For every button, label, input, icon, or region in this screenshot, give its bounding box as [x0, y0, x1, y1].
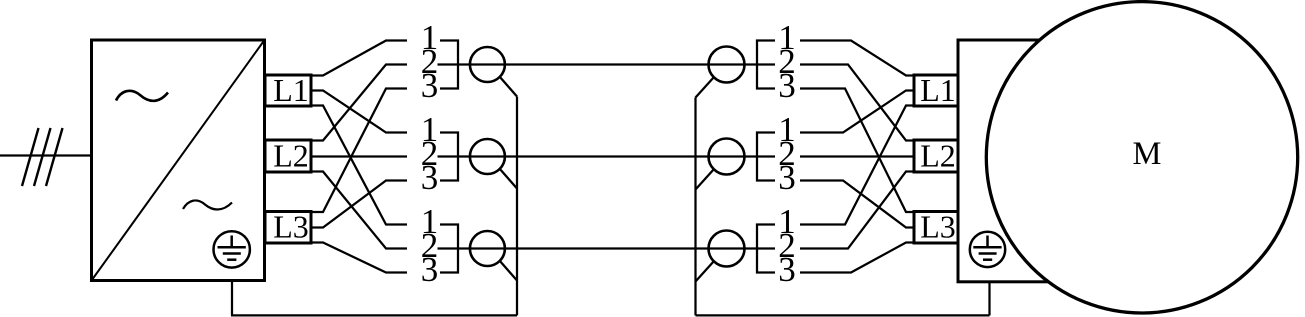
shield drain diagonal cable1 left: [500, 77, 517, 97]
svg-text:3: 3: [778, 66, 796, 105]
ground drop motor box: [988, 282, 990, 315]
terminal L3 motor: [914, 209, 958, 245]
connector bracket cable3 right: [757, 225, 775, 273]
shield bus vertical left: [516, 97, 518, 316]
terminal L2 converter: [265, 138, 311, 174]
pin labels cable2 right: [778, 110, 796, 197]
converter diagonal divider: [92, 40, 265, 281]
connector bracket cable1 right: [757, 41, 775, 89]
AC sine symbol output: [183, 200, 232, 209]
shield bus bottom right: [696, 314, 990, 316]
plug circle cable1 left: [470, 47, 505, 82]
wire L1 to cable3 pin1: [311, 106, 407, 225]
shield drain diagonal cable1 right: [696, 77, 714, 97]
pin labels cable2 left: [421, 110, 439, 197]
wire cable2 pin3 to motor L3: [800, 181, 914, 228]
pin labels cable3 left: [421, 202, 439, 289]
wire L3 to cable1 pin3: [311, 89, 407, 213]
wire cable2 pin1 to motor L1: [800, 91, 914, 133]
svg-text:L3: L3: [273, 209, 309, 245]
svg-text:L1: L1: [920, 72, 956, 108]
pin labels cable1 left: [421, 18, 439, 105]
svg-text:L2: L2: [273, 138, 309, 174]
shield drain diagonal cable2 left: [500, 169, 517, 189]
connector bracket cable1 left: [440, 41, 458, 89]
three-phase slash marks: [22, 128, 63, 186]
PE ground symbol converter: [214, 231, 250, 267]
three-phase supply line: [0, 154, 91, 156]
connector bracket cable2 right: [757, 133, 775, 181]
svg-text:3: 3: [421, 158, 439, 197]
shield drain diagonal cable3 left: [500, 261, 517, 281]
wire cable1 pin3 to motor L3: [800, 89, 914, 213]
connector bracket cable3 left: [440, 225, 458, 273]
shield drain diagonal cable3 right: [696, 261, 714, 281]
wire cable3 pin3 to motor L3: [800, 243, 914, 273]
svg-text:3: 3: [421, 66, 439, 105]
wire cable3 pin2 to motor L2: [800, 172, 914, 249]
wire L1 to cable2 pin1: [311, 91, 407, 133]
svg-text:L2: L2: [920, 138, 956, 174]
wire L2 to cable2 pin2: [311, 155, 407, 157]
wire cable2 pin2 to motor L2: [800, 155, 914, 157]
plug circle cable2 left: [470, 139, 505, 174]
pin labels cable1 right: [778, 18, 796, 105]
svg-text:L3: L3: [920, 209, 956, 245]
motor circle M: [986, 2, 1297, 313]
pin labels cable3 right: [778, 202, 796, 289]
connector bracket cable2 left: [440, 133, 458, 181]
PE ground symbol motor: [970, 232, 1005, 267]
terminal L1 converter: [265, 72, 311, 108]
terminal L3 converter: [265, 209, 311, 245]
plug circle cable3 left: [470, 231, 505, 266]
wire L3 to cable2 pin3: [311, 181, 407, 228]
svg-text:L1: L1: [273, 72, 309, 108]
plug circle cable2 right: [709, 139, 745, 175]
shield bus vertical right: [694, 98, 696, 316]
svg-text:3: 3: [778, 250, 796, 289]
cable conductor line 1: [438, 63, 776, 65]
frequency converter box U1: [92, 40, 265, 281]
wire cable1 pin2 to motor L2: [800, 65, 914, 141]
wire L2 to cable3 pin2: [311, 172, 407, 249]
AC sine symbol input: [116, 91, 168, 101]
wire L3 to cable3 pin3: [311, 243, 407, 273]
shield bus bottom left: [231, 314, 517, 316]
svg-text:3: 3: [421, 250, 439, 289]
wire L2 to cable1 pin2: [311, 65, 407, 141]
svg-text:M: M: [1133, 136, 1162, 172]
wire L1 to cable1 pin1: [311, 41, 407, 76]
ground drop converter: [231, 281, 233, 315]
shield drain diagonal cable2 right: [696, 169, 714, 189]
svg-text:3: 3: [778, 158, 796, 197]
terminal L1 motor: [914, 72, 958, 108]
plug circle cable1 right: [709, 47, 745, 83]
cable conductor line 3: [438, 247, 776, 249]
wire cable3 pin1 to motor L1: [800, 106, 914, 225]
plug circle cable3 right: [709, 231, 745, 267]
terminal L2 motor: [914, 138, 958, 174]
cable conductor line 2: [438, 155, 776, 157]
motor terminal box: [958, 40, 1048, 282]
wire cable1 pin1 to motor L1: [800, 41, 914, 76]
